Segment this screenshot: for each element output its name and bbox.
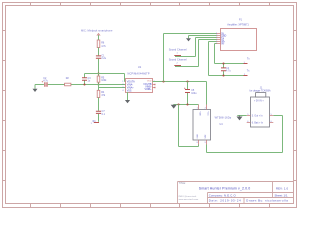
wire output rail [153,81,207,83]
wire C3 branch vertical [84,74,86,85]
charger pin stubs [247,116,274,123]
connector arrow MIC (input port, points up) [97,33,100,35]
border ticks left [3,31,6,181]
node junction C4 bottom [222,74,224,76]
wire R4 to C7 [98,98,100,111]
wire VSS to ground [127,92,129,100]
capacitor C4 [221,68,226,71]
svg-text:Smart Hunter Premium v_2.0.0: Smart Hunter Premium v_2.0.0 [199,186,251,190]
svg-text:GND: GND [197,134,199,139]
port T- (wire B end) [244,75,248,77]
wire amp pin6 to speaker wire A [215,44,244,64]
svg-text:4.7k: 4.7k [101,45,106,48]
svg-text:1: 1 [197,108,198,110]
wire VDD drop to module [206,82,208,105]
wire R6 to C1 [98,48,100,56]
ground GND2 (op-amp VSS) [125,100,130,103]
node junction C3/input rail [83,83,85,85]
node junction C5/gnd rail [186,103,188,105]
node junction loop/gnd rail [177,103,179,105]
wire amp pin3 to sound channel 1 [175,38,217,57]
svg-text:IN-: IN- [221,44,224,46]
svg-text:MIC: Minijack smartphone: MIC: Minijack smartphone [81,28,113,32]
ground GND4 [171,105,176,109]
svg-text:WT588-16Dp: WT588-16Dp [215,116,232,119]
resistor R2 [65,83,71,86]
svg-text:5. Out + In: 5. Out + In [252,114,264,117]
capacitor C2 polarized [45,82,47,87]
wire C7 to Rx label [98,114,100,122]
svg-text:Sound Channel: Sound Channel [169,58,187,61]
sheet border outer [3,3,297,208]
charger J1 body [251,97,270,127]
sheet border inner [6,6,294,204]
op-amp U1 body [126,79,153,93]
border ticks right [294,31,297,181]
port T+ (wire A end) [244,63,248,65]
node junction mic/feedback [97,72,99,74]
svg-text:4: 4 [122,90,123,92]
svg-text:REV: 1.0: REV: 1.0 [276,186,288,190]
svg-text:VINB+: VINB+ [145,88,153,91]
charger J1 top tab [256,93,266,97]
amplifier pin stubs [217,34,221,44]
svg-text:4.7u: 4.7u [226,70,231,73]
wire R5 bottom to input rail [98,82,100,84]
amplifier P1 body [221,29,257,51]
node junction R5/input rail [97,83,99,85]
capacitor C7 [96,111,101,113]
svg-text:6: 6 [247,121,248,123]
svg-text:1: 1 [244,62,245,64]
op-amp U1 pin labels left [127,80,135,92]
svg-text:Sound Channel: Sound Channel [169,48,187,51]
wire amp pin2 to ground [189,36,217,39]
WT588 pin stubs [199,105,207,145]
wire VINA+ rail [99,87,126,89]
wire feedback rail [85,74,126,82]
ground GND1 [33,89,38,92]
svg-text:INFO @neco-tech: INFO @neco-tech [179,195,197,198]
svg-text:2: 2 [244,74,245,76]
WT588 pin labels (vertical) [197,112,208,139]
capacitor C3 [82,78,87,81]
capacitor C5 branch wires [187,82,189,105]
wire WT588 speaker out to charger [207,116,283,153]
svg-text:VSS: VSS [127,89,132,92]
ground GND3 (amp) [186,38,191,41]
svg-text:1: 1 [122,81,123,83]
svg-text:9: 9 [205,142,206,144]
svg-text:U1: U1 [138,65,142,69]
svg-text:1: 1 [91,123,92,125]
svg-text:TITLE:: TITLE: [179,182,187,185]
charger pin numbers [247,114,271,123]
wire amp pin5 to speaker wire B [209,42,244,76]
svg-text:6. Batt + In: 6. Batt + In [252,122,264,125]
node junction output/C5 [186,80,188,82]
svg-text:Amplifier: XPT8871: Amplifier: XPT8871 [227,24,249,27]
wire mic arrow to R6 [98,35,100,40]
wire ground stem left [34,85,36,89]
wire ground rail [174,104,199,106]
wire amp pin4 to sound channel 2 [175,40,217,67]
svg-text:www.neco-tech.com: www.neco-tech.com [179,198,199,201]
svg-text:+ 5V IN +: + 5V IN + [254,100,264,102]
wire op-amp out up to amplifier pin1 [164,34,217,82]
svg-text:5: 5 [247,114,248,116]
border ticks top [31,3,270,6]
border ticks bottom [31,204,270,208]
ground GND5 (charger) [237,116,242,120]
wire input rail [35,84,126,86]
amplifier P1 pin labels [221,33,226,45]
resistor R5 [97,76,100,82]
svg-text:NCP/MAX4466TP: NCP/MAX4466TP [128,72,150,75]
capacitor C1 [96,56,101,58]
svg-text:Date: 2019-03-24: Date: 2019-03-24 [209,199,241,203]
svg-text:100u: 100u [191,92,197,95]
svg-text:5: 5 [271,114,272,116]
resistor R4 [97,90,100,97]
net label Rx [94,122,99,124]
svg-text:VDD: VDD [198,112,200,117]
WT588 pin numbers [197,108,206,145]
amplifier pin numbers [216,33,217,45]
svg-text:2: 2 [205,108,206,110]
node junction output/riser [162,80,164,82]
svg-text:4.7u: 4.7u [43,79,48,82]
wire charger left pin to ground [237,115,246,117]
wire jog down to VINA+ rail and R4 [98,85,100,91]
wire WT588 gnd loop [179,105,199,147]
node junction C4 top [222,62,224,64]
svg-text:Company: N.E.C.O: Company: N.E.C.O [209,194,237,198]
svg-text:for charger TC4056A: for charger TC4056A [250,89,271,92]
capacitor C5 [185,90,190,93]
title block frame [178,182,294,204]
resistor R6 [97,40,100,48]
capacitor C4 branch wires [223,64,225,76]
svg-text:Sheet: 1/1: Sheet: 1/1 [275,194,288,198]
wire C1 down to feedback rail [98,59,100,76]
op-amp pin numbers [122,81,154,92]
svg-text:2: 2 [122,84,123,86]
svg-text:8: 8 [197,142,198,144]
op-amp NC stubs right [153,84,156,88]
svg-text:VCC: VCC [206,112,208,117]
WT588 module body U4 [193,110,211,141]
svg-text:2.2u: 2.2u [101,57,106,60]
svg-text:6: 6 [271,121,272,123]
svg-text:SPK: SPK [205,134,207,139]
svg-text:Drawn By: nicolasarrolla: Drawn By: nicolasarrolla [246,199,288,203]
svg-text:3: 3 [122,87,123,89]
svg-text:100k: 100k [101,79,107,82]
